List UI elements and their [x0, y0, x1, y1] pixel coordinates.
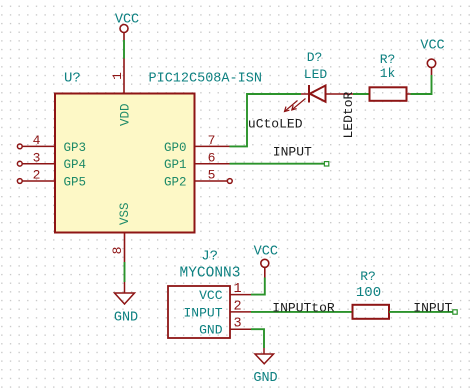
svg-text:R?: R? — [380, 52, 396, 67]
svg-text:VSS: VSS — [118, 202, 132, 225]
svg-text:INPUTtoR: INPUTtoR — [272, 300, 335, 315]
svg-text:INPUT: INPUT — [273, 144, 312, 159]
wire J1 pin1 to VCC — [251, 278, 265, 295]
ground symbol (under IC) — [115, 282, 135, 304]
svg-text:100: 100 — [356, 285, 381, 301]
svg-text:VDD: VDD — [119, 103, 133, 126]
svg-text:R?: R? — [360, 269, 376, 284]
wire pin8 to GND — [124, 262, 126, 282]
svg-text:4: 4 — [33, 133, 41, 148]
pin 8 VSS (bottom) — [124, 233, 126, 263]
svg-text:GP3: GP3 — [64, 141, 87, 155]
dangling wire end square (INPUT mid) — [324, 162, 328, 166]
svg-text:U?: U? — [64, 71, 81, 87]
svg-text:GP4: GP4 — [64, 158, 87, 172]
svg-text:6: 6 — [208, 150, 216, 165]
IC U1 PIC12C508A-ISN body — [55, 94, 195, 233]
resistor R1 1k — [370, 87, 407, 101]
wire R1 to VCC (right) — [411, 75, 432, 94]
pin 2 GP5 — [17, 179, 55, 184]
wire J1 pin3 to GND — [251, 329, 264, 348]
svg-text:GP2: GP2 — [164, 175, 187, 189]
svg-text:LEDtoR: LEDtoR — [341, 91, 356, 138]
svg-text:GP1: GP1 — [164, 158, 187, 172]
svg-text:uCtoLED: uCtoLED — [248, 116, 303, 131]
connector J1 MYCONN3 body — [168, 286, 230, 338]
ground symbol (bottom) — [255, 348, 274, 364]
pin 1 VDD (top) — [123, 59, 125, 94]
LED D1 — [285, 85, 354, 112]
pin 6 GP1 — [195, 163, 230, 165]
svg-text:D?: D? — [307, 50, 323, 65]
pin 5 GP2 — [195, 179, 233, 184]
svg-text:2: 2 — [33, 168, 41, 183]
power symbol VCC (bottom) — [261, 259, 269, 277]
wire pin7 to LED (uCtoLED net) — [230, 94, 302, 146]
svg-text:3: 3 — [233, 317, 241, 332]
wire LED to R1 — [353, 93, 370, 95]
pin 4 GP3 — [17, 144, 55, 149]
svg-text:2: 2 — [233, 299, 241, 314]
resistor R2 100 — [353, 305, 390, 319]
svg-text:3: 3 — [33, 150, 41, 165]
wire R2 to INPUT end — [389, 311, 453, 313]
svg-text:VCC: VCC — [420, 39, 444, 54]
svg-text:1k: 1k — [380, 66, 396, 81]
svg-text:GND: GND — [253, 371, 277, 386]
svg-text:GND: GND — [199, 323, 223, 338]
J1 pin 1 VCC — [230, 294, 251, 296]
wire VCC to pin1 — [123, 40, 125, 59]
svg-text:MYCONN3: MYCONN3 — [180, 266, 241, 282]
svg-text:VCC: VCC — [254, 245, 278, 260]
svg-text:J?: J? — [201, 249, 218, 265]
svg-text:7: 7 — [208, 133, 216, 148]
svg-text:GP0: GP0 — [164, 141, 187, 155]
pin stub R1 right — [407, 93, 411, 95]
pin 7 GP0 — [195, 145, 230, 147]
svg-text:INPUT: INPUT — [183, 305, 222, 320]
svg-text:VCC: VCC — [115, 13, 139, 28]
svg-text:INPUT: INPUT — [413, 300, 452, 315]
svg-text:LED: LED — [304, 67, 328, 82]
wire pin6 INPUT net — [230, 163, 326, 165]
svg-text:1: 1 — [110, 72, 125, 80]
wire J1 pin2 to R2 (INPUTtoR net) — [251, 311, 353, 313]
svg-text:VCC: VCC — [199, 288, 223, 303]
power symbol VCC (right) — [427, 59, 435, 75]
svg-text:GP5: GP5 — [64, 175, 87, 189]
svg-text:5: 5 — [208, 168, 216, 183]
svg-text:1: 1 — [233, 282, 241, 297]
J1 pin 3 GND — [230, 328, 251, 330]
dangling wire end square (INPUT right) — [453, 310, 457, 314]
svg-text:GND: GND — [114, 310, 138, 325]
J1 pin 2 INPUT — [230, 311, 251, 313]
power symbol VCC (top) — [120, 25, 128, 41]
pin 3 GP4 — [17, 161, 55, 166]
svg-text:PIC12C508A-ISN: PIC12C508A-ISN — [149, 72, 262, 87]
svg-text:8: 8 — [110, 247, 125, 255]
